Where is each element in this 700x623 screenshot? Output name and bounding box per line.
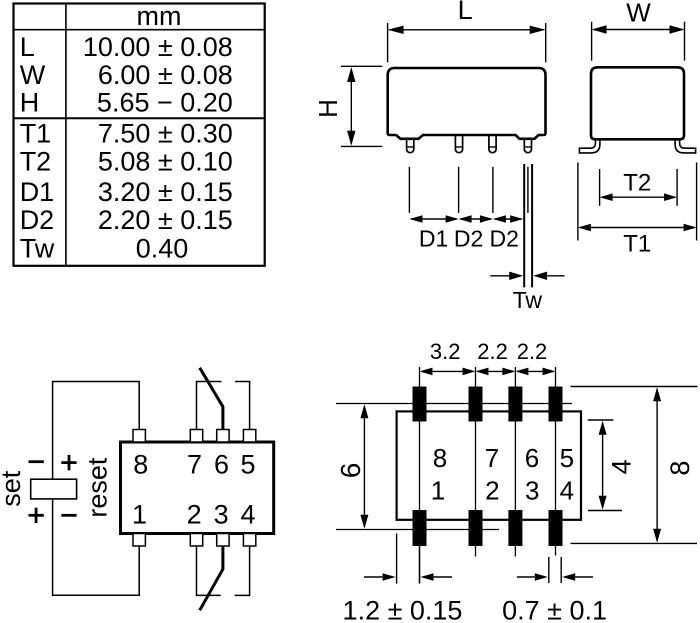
- contact arm top (pin 6): [200, 368, 223, 430]
- pad number 5: [560, 443, 574, 473]
- svg-text:4: 4: [560, 475, 574, 505]
- label 4: [607, 459, 637, 474]
- pin number 8: [133, 449, 148, 479]
- pad number 1: [431, 475, 445, 505]
- coil: [31, 479, 77, 499]
- svg-text:T1: T1: [623, 230, 651, 257]
- table row H: [20, 88, 233, 118]
- package body end view: [591, 67, 684, 139]
- pad number 2: [485, 475, 499, 505]
- svg-text:7: 7: [187, 449, 202, 479]
- wire pin 5 stub: [235, 382, 250, 430]
- label W: [626, 0, 651, 27]
- svg-text:0.7 ± 0.1: 0.7 ± 0.1: [502, 596, 607, 623]
- svg-text:4: 4: [607, 459, 637, 474]
- pin 2 lead (side view): [455, 135, 462, 153]
- pin 3 lead (side view): [489, 135, 496, 153]
- terminal pin 7: [190, 430, 202, 443]
- pad centerline col 2: [475, 367, 477, 557]
- dimension 6 arrow: [360, 404, 368, 529]
- svg-text:W: W: [20, 60, 46, 90]
- svg-text:T1: T1: [20, 118, 52, 148]
- svg-text:D1: D1: [419, 226, 448, 252]
- svg-text:2: 2: [485, 475, 499, 505]
- svg-text:3.2: 3.2: [430, 339, 461, 364]
- pad number 6: [525, 443, 539, 473]
- svg-text:1: 1: [132, 500, 147, 530]
- table row W: [20, 60, 233, 90]
- svg-text:8: 8: [433, 443, 447, 473]
- dimension 3.2 arrow: [420, 368, 476, 376]
- pin number 1: [132, 500, 147, 530]
- svg-text:3: 3: [214, 500, 229, 530]
- svg-text:H: H: [20, 88, 40, 118]
- label H: [313, 99, 343, 118]
- dimension T1 extension lines: [578, 163, 697, 241]
- pad row centerline bottom: [336, 529, 499, 531]
- svg-text:reset: reset: [83, 457, 113, 518]
- dimension D2 arrow (pins 2-3): [459, 215, 493, 223]
- dimension 0.7 extension lines: [549, 557, 561, 583]
- dimension D1 arrow: [409, 215, 458, 223]
- dimension H extension lines: [341, 66, 382, 146]
- label 2.2 (cols 3-4): [517, 339, 548, 364]
- polarity plus (set bottom): [29, 508, 44, 523]
- terminal pin 5: [243, 430, 255, 443]
- svg-text:5.08 ± 0.10: 5.08 ± 0.10: [98, 147, 233, 177]
- pad 2 top: [469, 387, 483, 422]
- labels D1 D2 D2: [419, 226, 519, 252]
- svg-text:T2: T2: [623, 170, 651, 197]
- pin number 7: [187, 449, 202, 479]
- dimension T2 arrow: [600, 193, 678, 201]
- contact arm bottom (pin 3): [200, 546, 223, 610]
- dimension T2 extension lines: [600, 169, 678, 206]
- svg-text:2.2: 2.2: [517, 339, 548, 364]
- label reset: [83, 457, 113, 518]
- dimension 0.7 arrows: [517, 573, 593, 581]
- svg-text:D2: D2: [20, 205, 55, 235]
- table row D1: [20, 177, 233, 207]
- label 8: [665, 461, 695, 476]
- terminal pin 1: [133, 534, 145, 547]
- svg-text:Tw: Tw: [513, 287, 543, 313]
- pad 4 bottom: [549, 510, 563, 546]
- svg-text:2: 2: [187, 500, 202, 530]
- svg-text:H: H: [313, 99, 343, 118]
- relay body: [121, 442, 274, 534]
- svg-text:5: 5: [240, 449, 255, 479]
- terminal pin 2: [190, 534, 202, 547]
- svg-text:1: 1: [431, 475, 445, 505]
- dimension T1 arrow: [578, 224, 697, 232]
- label 6: [335, 463, 366, 479]
- dimension L arrow: [388, 26, 546, 34]
- dimension 4 arrow: [599, 421, 607, 510]
- terminal pin 3: [217, 534, 229, 547]
- svg-text:5: 5: [560, 443, 574, 473]
- dimension 1.2 arrows: [364, 573, 452, 581]
- lead right (end view): [675, 138, 696, 153]
- pad number 8: [433, 443, 447, 473]
- svg-text:6: 6: [525, 443, 539, 473]
- svg-text:0.40: 0.40: [136, 233, 189, 263]
- pad 2 bottom: [469, 510, 483, 546]
- label set: [0, 470, 26, 507]
- pad 1 top: [413, 387, 427, 422]
- svg-text:2.20 ± 0.15: 2.20 ± 0.15: [98, 205, 233, 235]
- label 0.7: [502, 596, 607, 623]
- wire set-coil loop: [53, 382, 140, 596]
- svg-text:3: 3: [525, 475, 539, 505]
- dimension W extension lines: [592, 22, 685, 61]
- pad 3 top: [508, 387, 522, 422]
- svg-text:5.65 − 0.20: 5.65 − 0.20: [97, 88, 233, 118]
- dimension 8 extension lines: [571, 387, 698, 544]
- svg-text:W: W: [626, 0, 651, 27]
- svg-text:10.00 ± 0.08: 10.00 ± 0.08: [83, 32, 233, 62]
- label Tw: [513, 287, 543, 313]
- svg-text:set: set: [0, 470, 26, 507]
- dimension 1.2 extension lines: [397, 534, 420, 584]
- polarity minus (reset bottom): [61, 514, 76, 517]
- pin 4 lead (side view): [524, 139, 531, 153]
- pad number 4: [560, 475, 574, 505]
- svg-text:D2: D2: [454, 226, 483, 252]
- svg-text:2.2: 2.2: [477, 339, 508, 364]
- label L: [458, 0, 473, 25]
- pin 1 lead (side view): [407, 139, 414, 153]
- svg-text:Tw: Tw: [20, 233, 55, 263]
- pin number 5: [240, 449, 255, 479]
- svg-text:4: 4: [240, 500, 255, 530]
- table row D2: [20, 205, 233, 235]
- label 3.2: [430, 339, 461, 364]
- pad 3 bottom: [508, 510, 522, 546]
- polarity minus (set top): [29, 460, 44, 463]
- svg-text:6: 6: [214, 449, 229, 479]
- dimension L extension lines: [388, 23, 546, 62]
- pin number 4: [240, 500, 255, 530]
- dimension 2.2 arrow (cols 2-3): [476, 368, 516, 376]
- dimension Tw arrows: [490, 272, 564, 280]
- pad centerline col 3: [514, 367, 516, 557]
- pad number 3: [525, 475, 539, 505]
- svg-text:T2: T2: [20, 147, 52, 177]
- dimension H arrow: [347, 67, 355, 146]
- svg-text:D2: D2: [489, 226, 518, 252]
- pad centerline col 1: [419, 367, 421, 584]
- polarity plus (reset top): [61, 455, 76, 470]
- wire pin 7 stub: [197, 382, 222, 430]
- pin number 6: [214, 449, 229, 479]
- svg-text:3.20 ± 0.15: 3.20 ± 0.15: [98, 177, 233, 207]
- table row L: [20, 32, 233, 62]
- svg-text:7: 7: [485, 443, 499, 473]
- terminal pin 8: [133, 430, 145, 443]
- svg-text:D1: D1: [20, 177, 55, 207]
- svg-text:8: 8: [133, 449, 148, 479]
- svg-text:1.2 ± 0.15: 1.2 ± 0.15: [343, 596, 463, 623]
- svg-text:L: L: [20, 32, 35, 62]
- svg-text:8: 8: [665, 461, 695, 476]
- pad 4 top: [549, 387, 563, 422]
- table row Tw: [20, 233, 189, 263]
- pin number 2: [187, 500, 202, 530]
- dimension D2 arrow (pins 3-4): [493, 215, 523, 223]
- svg-text:6: 6: [335, 463, 366, 479]
- table row T1: [20, 118, 233, 148]
- dimension 2.2 arrow (cols 3-4): [515, 368, 555, 376]
- pad 1 bottom: [413, 510, 427, 546]
- dimension 4 extension lines: [588, 420, 622, 511]
- svg-text:L: L: [458, 0, 473, 25]
- pin pitch extension lines: [409, 167, 528, 213]
- terminal pin 4: [243, 534, 255, 547]
- wire pin 4 stub: [235, 546, 250, 595]
- lead left (end view): [579, 138, 600, 153]
- svg-text:6.00 ± 0.08: 6.00 ± 0.08: [98, 60, 233, 90]
- dimension 8 arrow: [653, 387, 661, 543]
- terminal pin 6: [217, 430, 229, 443]
- pad row centerline top: [336, 403, 572, 405]
- pad centerline col 4: [555, 367, 557, 556]
- svg-text:mm: mm: [137, 1, 182, 31]
- pin number 3: [214, 500, 229, 530]
- table row T2: [20, 147, 233, 177]
- lead thickness extension lines: [524, 164, 532, 287]
- svg-text:7.50 ± 0.30: 7.50 ± 0.30: [98, 118, 233, 148]
- label 1.2: [343, 596, 463, 623]
- dimension table frame: [14, 4, 265, 266]
- land outline: [397, 411, 581, 519]
- label 2.2 (cols 2-3): [477, 339, 508, 364]
- package body side view: [388, 68, 546, 139]
- label T2: [623, 170, 651, 197]
- wire pin 2 stub: [197, 546, 221, 595]
- dimension W arrow: [592, 25, 685, 33]
- label T1: [623, 230, 651, 257]
- pad number 7: [485, 443, 499, 473]
- table header mm: [137, 1, 182, 31]
